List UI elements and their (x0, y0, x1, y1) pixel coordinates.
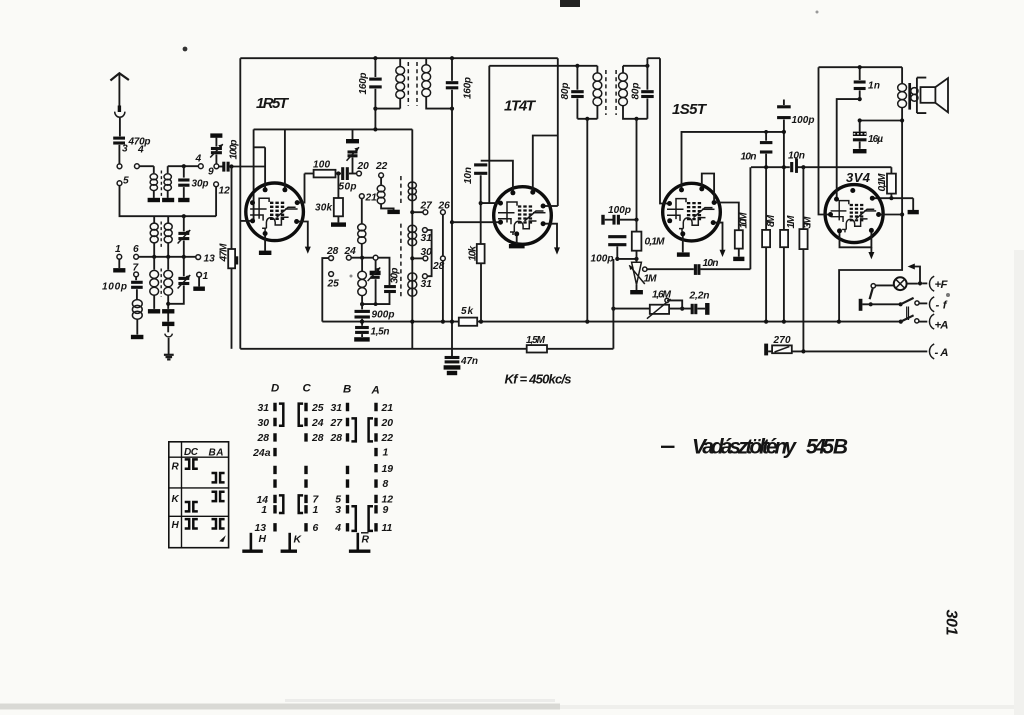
svg-text:24a: 24a (252, 448, 271, 459)
svg-text:B A: B A (209, 448, 224, 459)
svg-text:13: 13 (254, 523, 266, 534)
svg-text:20: 20 (381, 418, 394, 429)
svg-text:0,1M: 0,1M (877, 173, 888, 192)
svg-text:5: 5 (123, 176, 129, 187)
svg-text:1: 1 (203, 271, 209, 282)
svg-text:30p: 30p (192, 179, 209, 190)
svg-text:1M: 1M (786, 215, 797, 229)
svg-text:5: 5 (335, 495, 341, 506)
svg-text:10n: 10n (788, 151, 805, 162)
svg-text:28: 28 (326, 246, 339, 257)
svg-text:H: H (172, 520, 180, 531)
svg-text:10k: 10k (468, 245, 479, 261)
svg-text:Kf = 450kc/s: Kf = 450kc/s (505, 372, 572, 387)
svg-text:20: 20 (357, 161, 370, 172)
svg-text:100p: 100p (608, 205, 631, 216)
svg-text:9: 9 (208, 167, 214, 178)
svg-text:H: H (259, 534, 267, 545)
svg-text:0,1M: 0,1M (645, 237, 666, 248)
svg-text:100p: 100p (591, 254, 614, 265)
svg-text:1,5M: 1,5M (526, 335, 546, 346)
svg-text:4: 4 (195, 154, 202, 165)
svg-text:1S5T: 1S5T (672, 101, 708, 118)
svg-text:30: 30 (421, 247, 433, 258)
svg-text:31: 31 (257, 403, 269, 414)
svg-text:R: R (362, 535, 370, 546)
svg-text:8: 8 (383, 479, 389, 490)
svg-text:2,2n: 2,2n (689, 291, 710, 302)
svg-text:100p: 100p (792, 115, 815, 126)
svg-text:3M: 3M (803, 216, 814, 229)
svg-text:47n: 47n (460, 356, 478, 367)
svg-text:27: 27 (329, 418, 343, 429)
svg-text:12: 12 (382, 495, 394, 506)
svg-text:16µ: 16µ (868, 134, 883, 145)
svg-text:3V4: 3V4 (846, 170, 871, 185)
svg-text:25: 25 (327, 279, 340, 290)
svg-text:1: 1 (261, 505, 267, 516)
svg-text:9: 9 (383, 505, 389, 516)
svg-text:100p: 100p (102, 282, 127, 293)
svg-text:31: 31 (421, 279, 433, 290)
svg-text:6: 6 (313, 523, 319, 534)
svg-text:10n: 10n (703, 258, 719, 269)
svg-text:1T4T: 1T4T (504, 98, 537, 115)
svg-text:160p: 160p (358, 73, 369, 95)
svg-text:1n: 1n (868, 81, 880, 92)
svg-text:900p: 900p (372, 310, 395, 321)
svg-text:B: B (343, 384, 351, 396)
svg-text:12: 12 (219, 186, 231, 197)
svg-text:+A: +A (935, 320, 949, 332)
svg-text:3: 3 (122, 144, 128, 155)
svg-text:27: 27 (420, 201, 434, 212)
svg-text:80p: 80p (560, 83, 571, 100)
svg-text:3: 3 (335, 505, 341, 516)
svg-text:Vadásztöltény: Vadásztöltény (692, 436, 797, 459)
svg-text:+F: +F (935, 279, 949, 291)
svg-text:22: 22 (381, 433, 394, 444)
svg-text:28: 28 (256, 433, 269, 444)
svg-text:13: 13 (204, 254, 216, 265)
svg-text:11: 11 (382, 523, 393, 534)
svg-text:50p: 50p (339, 182, 357, 193)
svg-text:14: 14 (256, 495, 268, 506)
svg-text:100: 100 (313, 160, 330, 171)
svg-text:4: 4 (137, 145, 144, 156)
svg-text:30k: 30k (315, 203, 332, 214)
svg-text:1R5T: 1R5T (256, 95, 290, 112)
svg-text:47M: 47M (219, 243, 230, 263)
svg-text:10n: 10n (741, 152, 757, 163)
svg-text:R: R (172, 462, 180, 473)
svg-text:80p: 80p (631, 83, 642, 100)
svg-text:10M: 10M (739, 212, 750, 229)
svg-text:31: 31 (330, 403, 342, 414)
svg-text:1: 1 (115, 244, 121, 255)
svg-text:-A: -A (935, 347, 949, 359)
svg-text:K: K (172, 494, 180, 505)
svg-text:A: A (371, 385, 380, 397)
svg-text:19: 19 (382, 464, 394, 475)
svg-text:24: 24 (344, 246, 357, 257)
svg-text:270: 270 (773, 335, 791, 346)
svg-text:30p: 30p (390, 268, 401, 284)
svg-text:5k: 5k (461, 306, 473, 317)
svg-text:6: 6 (133, 244, 139, 255)
svg-text:10n: 10n (463, 167, 474, 184)
svg-text:24: 24 (311, 418, 324, 429)
svg-text:D C: D C (184, 447, 199, 458)
svg-text:301: 301 (943, 610, 960, 636)
svg-text:21: 21 (365, 193, 378, 204)
svg-text:4: 4 (334, 523, 341, 534)
svg-text:D: D (271, 383, 279, 395)
svg-text:21: 21 (381, 403, 394, 414)
svg-text:8M: 8M (766, 215, 777, 228)
svg-text:1: 1 (383, 447, 389, 458)
svg-text:31: 31 (421, 233, 433, 244)
svg-text:28: 28 (329, 433, 342, 444)
svg-text:545 B: 545 B (806, 436, 848, 459)
svg-text:1: 1 (313, 505, 319, 516)
svg-text:C: C (303, 383, 312, 395)
svg-text:25: 25 (311, 403, 324, 414)
svg-text:26: 26 (438, 201, 451, 212)
svg-text:30: 30 (257, 418, 269, 429)
svg-text:1,5n: 1,5n (371, 327, 390, 338)
svg-text:1M: 1M (644, 274, 658, 285)
svg-text:160p: 160p (463, 77, 474, 99)
svg-text:28: 28 (311, 433, 324, 444)
svg-text:22: 22 (375, 161, 388, 172)
svg-text:100p: 100p (229, 140, 240, 160)
